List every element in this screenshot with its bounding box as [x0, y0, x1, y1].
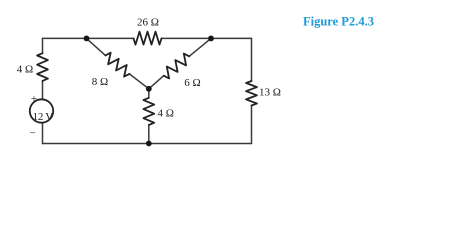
wire left between R4 and source: [42, 81, 44, 100]
svg-text:12 V: 12 V: [33, 111, 54, 123]
node C (center junction): [146, 86, 152, 92]
resistor 26ohm: [134, 32, 162, 45]
svg-text:Figure P2.4.3: Figure P2.4.3: [303, 15, 374, 29]
resistor 4ohm left: [37, 53, 48, 81]
wire R8 to center node: [129, 74, 148, 89]
wire top-left to 26ohm: [43, 37, 134, 39]
wire 26ohm to top-right corner: [162, 37, 252, 39]
node D (bottom junction): [146, 141, 152, 147]
wire right below R13: [251, 106, 253, 144]
wire node B to R6: [189, 38, 211, 56]
svg-text:26 Ω: 26 Ω: [137, 17, 159, 29]
wire R4 mid to bottom: [148, 125, 150, 144]
svg-text:13 Ω: 13 Ω: [259, 87, 281, 99]
svg-text:4 Ω: 4 Ω: [17, 64, 33, 76]
svg-text:+: +: [31, 93, 37, 105]
voltage source V1 circle: [30, 99, 53, 122]
wire node A to R8: [87, 38, 106, 55]
resistor 4ohm middle: [143, 98, 154, 125]
svg-text:−: −: [29, 127, 35, 139]
resistor 6ohm: [164, 54, 190, 79]
node A (top-left junction): [84, 36, 90, 42]
node B (top-right junction): [208, 36, 214, 42]
wire right above R13: [251, 38, 253, 81]
resistor 8ohm: [105, 53, 129, 77]
svg-text:8 Ω: 8 Ω: [92, 76, 108, 88]
svg-text:4 Ω: 4 Ω: [158, 108, 174, 120]
wire center node to R4 mid: [148, 89, 150, 98]
wire left vertical top: [42, 38, 44, 53]
wire bottom: [43, 143, 252, 145]
svg-text:6 Ω: 6 Ω: [184, 77, 200, 89]
wire left below source: [42, 123, 44, 143]
wire R6 to center node: [149, 76, 164, 89]
resistor 13ohm: [246, 81, 257, 106]
